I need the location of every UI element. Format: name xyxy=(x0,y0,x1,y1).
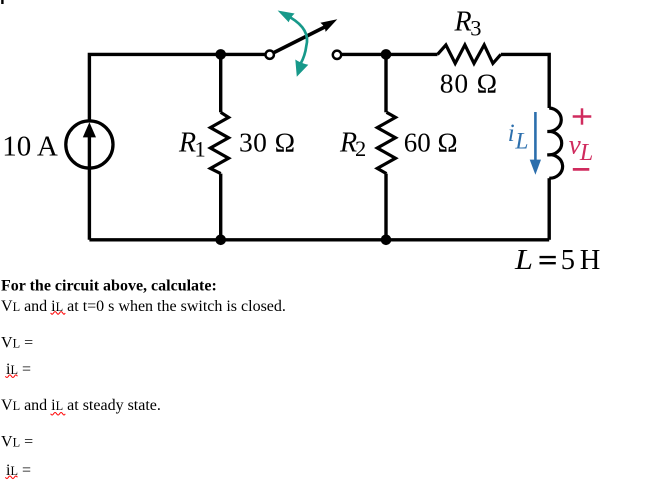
node D junction dot xyxy=(381,235,392,246)
wire R3 to top-right corner xyxy=(501,54,549,108)
wire left bottom segment xyxy=(88,168,91,240)
svg-text:5: 5 xyxy=(561,245,575,276)
wire top-left segment (source to node A) xyxy=(89,54,265,121)
current arrow iL (blue) xyxy=(530,112,541,175)
spellcheck squiggle under iL line 2 xyxy=(51,312,66,315)
wire inductor bottom lead xyxy=(548,178,551,240)
stray mark top-left corner xyxy=(1,0,3,4)
svg-text:R: R xyxy=(178,127,196,158)
svg-text:1: 1 xyxy=(195,137,206,162)
svg-text:60 Ω: 60 Ω xyxy=(404,127,458,157)
svg-text:30 Ω: 30 Ω xyxy=(239,127,295,158)
plus sign polarity (crimson) xyxy=(573,108,592,124)
svg-text:H: H xyxy=(580,245,601,276)
node C junction dot xyxy=(215,235,226,246)
wire R1 top lead xyxy=(219,54,222,112)
wire bottom segment xyxy=(89,238,549,241)
wire R1 bottom lead xyxy=(219,174,222,240)
resistor R3 xyxy=(438,45,501,64)
label L = 5 H xyxy=(514,245,600,276)
svg-text:VL =: VL = xyxy=(1,335,33,352)
wire switch to R3 segment xyxy=(342,53,438,56)
spellcheck squiggle under iL first xyxy=(5,375,17,378)
svg-text:VL and iL at t=0 s when the sw: VL and iL at t=0 s when the switch is cl… xyxy=(1,298,286,315)
svg-text:VL and iL at steady state.: VL and iL at steady state. xyxy=(1,397,161,414)
node B junction dot xyxy=(381,49,392,60)
svg-text:i: i xyxy=(508,120,515,147)
svg-text:80 Ω: 80 Ω xyxy=(440,67,498,98)
svg-text:v: v xyxy=(569,129,581,159)
wire R2 top lead xyxy=(384,54,387,112)
inductor L xyxy=(547,108,562,178)
svg-text:L: L xyxy=(514,245,533,276)
svg-text:10 A: 10 A xyxy=(2,130,58,162)
spellcheck squiggle under iL steady state line xyxy=(51,413,66,416)
resistor R1 xyxy=(210,112,228,173)
svg-text:L: L xyxy=(514,128,528,154)
switch left terminal xyxy=(266,51,274,59)
svg-text:2: 2 xyxy=(355,136,366,161)
svg-text:R: R xyxy=(454,7,472,38)
svg-text:3: 3 xyxy=(470,16,481,41)
svg-text:L: L xyxy=(579,140,593,166)
svg-text:VL =: VL = xyxy=(1,433,33,450)
switch motion arrow (teal) xyxy=(278,11,309,77)
spellcheck squiggle under iL second xyxy=(5,476,17,479)
current source 10 A xyxy=(66,121,113,168)
resistor R2 xyxy=(377,112,395,173)
svg-text:For the circuit above, calcula: For the circuit above, calculate: xyxy=(1,278,217,295)
node A junction dot xyxy=(215,49,226,60)
minus sign polarity (crimson) xyxy=(573,168,590,171)
switch S1 arm xyxy=(274,19,338,52)
switch right terminal xyxy=(333,51,341,59)
wire R2 bottom lead xyxy=(384,174,387,240)
